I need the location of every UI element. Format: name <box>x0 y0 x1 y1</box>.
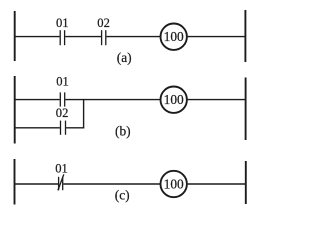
wire: coil to right rail (rung c) <box>188 183 246 185</box>
wire: contact 02 to coil 100 <box>106 36 160 38</box>
svg-text:02: 02 <box>97 16 110 30</box>
coil 100 rung (a) <box>161 24 187 50</box>
junction vertical wire (rung b) <box>83 100 85 129</box>
contact 01 (NO) rung (b) <box>60 92 64 106</box>
wire: contact 01 to coil (rung c) <box>63 183 160 185</box>
coil 100 rung (c) <box>161 171 187 197</box>
wire: rung (a) left rail to contact 01 <box>14 36 60 38</box>
contact 01 (NO) rung (a) <box>60 30 64 45</box>
contact 01 (NC) rung (c) <box>59 177 63 190</box>
rung (b) right power rail <box>245 78 247 141</box>
svg-text:01: 01 <box>55 161 68 175</box>
svg-text:(a): (a) <box>117 50 132 65</box>
branch wire: left rail to contact 02 (rung b) <box>14 127 60 129</box>
svg-text:01: 01 <box>56 16 69 30</box>
svg-text:02: 02 <box>56 106 69 120</box>
wire: rung (c) left rail to contact 01 <box>14 183 58 185</box>
svg-text:100: 100 <box>164 92 184 107</box>
svg-text:(b): (b) <box>115 123 131 138</box>
wire: contact 01 to contact 02 <box>65 36 101 38</box>
contact 02 (NO) rung (a) <box>102 30 106 45</box>
rung (a) left power rail <box>14 11 16 61</box>
rung (c) left power rail <box>14 159 16 205</box>
rung (b) left power rail <box>14 76 16 144</box>
wire: coil to right rail (rung a) <box>188 36 245 38</box>
branch wire: contact 02 to junction vertical <box>66 127 84 129</box>
svg-text:01: 01 <box>56 75 69 89</box>
svg-text:100: 100 <box>164 29 184 44</box>
svg-text:(c): (c) <box>115 188 130 203</box>
rung (c) right power rail <box>245 161 247 204</box>
wire: coil to right rail (rung b) <box>188 99 245 101</box>
coil 100 rung (b) <box>161 87 187 113</box>
contact 02 (NO) rung (b) branch <box>61 121 66 135</box>
svg-text:100: 100 <box>164 177 184 192</box>
rung (a) right power rail <box>244 10 246 62</box>
wire: junction to coil (rung b) <box>84 99 160 101</box>
wire: rung (b) left rail to contact 01 <box>14 99 60 101</box>
NC slash of contact 01 (rung c) <box>58 174 64 190</box>
wire: contact 01 to junction (rung b main) <box>65 99 84 101</box>
